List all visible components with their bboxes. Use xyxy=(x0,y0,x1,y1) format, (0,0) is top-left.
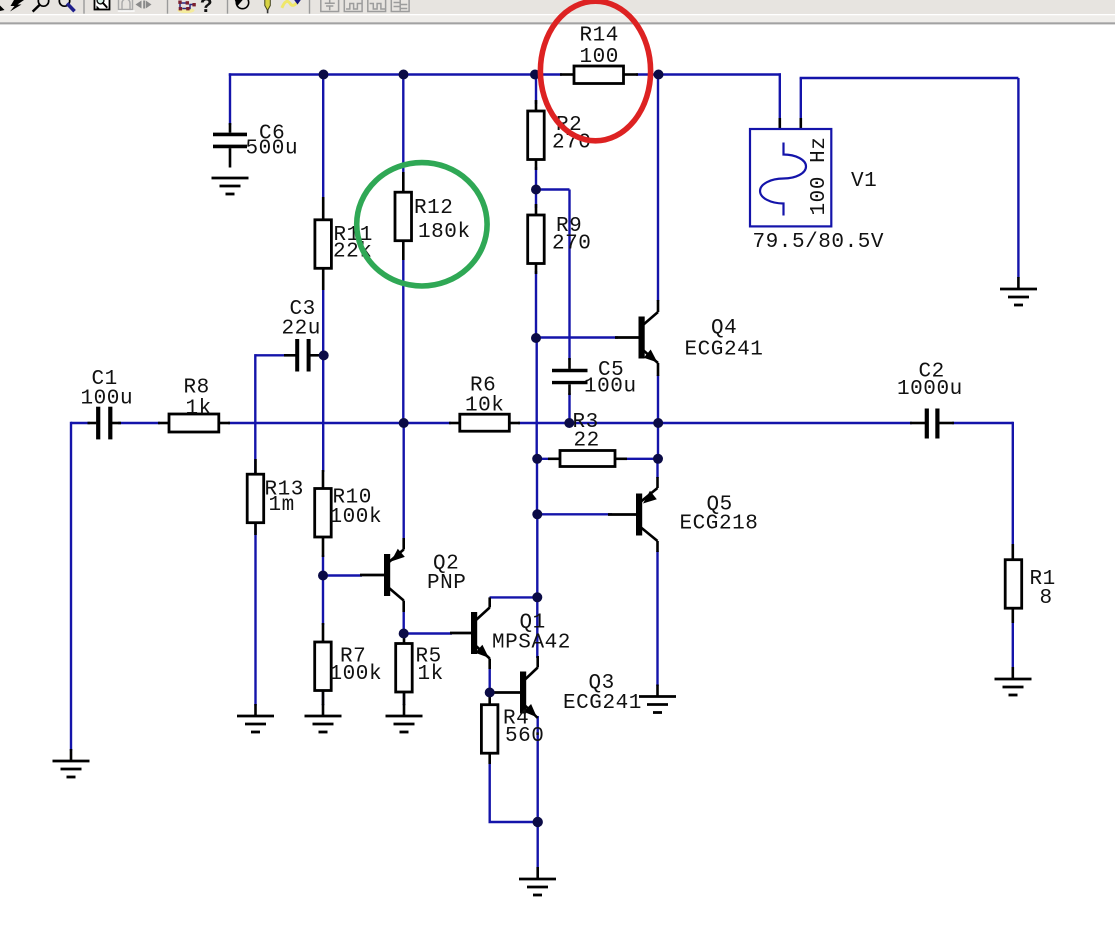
wire R5 to ground xyxy=(403,690,405,706)
wire R12 to main node xyxy=(402,258,404,423)
wire bottom node to ground xyxy=(537,822,539,868)
wire Q4 collector xyxy=(657,75,659,302)
voltage source V1 xyxy=(750,118,884,254)
wire Q1 collector node to Q3 collector xyxy=(536,597,538,658)
wire node to R9 xyxy=(535,190,537,209)
svg-text:ECG241: ECG241 xyxy=(563,692,642,715)
resistor R9 xyxy=(528,204,592,274)
wire R3 right node to Q5 emitter xyxy=(656,459,658,478)
wire Q5 base node to Q1 collector node xyxy=(536,514,538,597)
junction node Q1 collector xyxy=(532,592,542,602)
wire R8 to R12 node xyxy=(228,422,404,424)
wire top rail corner to V1 left pin xyxy=(779,73,781,120)
wire C5 branch horizontal xyxy=(536,188,570,190)
resistor R6 xyxy=(449,375,520,432)
wire C2 corner down to R1 xyxy=(1012,422,1014,546)
svg-text:100u: 100u xyxy=(584,376,637,399)
ground bottom center xyxy=(519,867,556,895)
svg-text:MPSA42: MPSA42 xyxy=(492,632,571,655)
junction node R2-R9-C5 xyxy=(531,185,541,195)
wire Q5 base xyxy=(537,513,612,515)
junction node R3 left xyxy=(532,454,542,464)
resistor R12 xyxy=(395,172,471,260)
junction node main-R12 xyxy=(399,418,409,428)
wire C5 to main wire xyxy=(568,393,570,423)
annotation red ellipse around R14 xyxy=(540,1,650,141)
wire Q4 emitter to main node xyxy=(657,375,659,423)
capacitor C3 xyxy=(282,298,322,372)
wire Q2 collector to R5 node xyxy=(403,610,405,634)
wire R7 to ground xyxy=(322,688,324,706)
svg-text:180k: 180k xyxy=(418,221,471,244)
transistor Q3 ECG241 NPN xyxy=(490,656,642,718)
wire V1 right pin up xyxy=(800,78,802,120)
svg-text:100k: 100k xyxy=(330,506,383,529)
svg-text:ECG218: ECG218 xyxy=(680,513,759,536)
ground below R13 xyxy=(237,704,274,732)
wire C6 column xyxy=(229,73,231,125)
resistor R11 xyxy=(315,197,373,290)
svg-text:100u: 100u xyxy=(81,388,134,411)
ground below Q5 xyxy=(639,685,676,713)
capacitor C6 xyxy=(213,123,298,168)
resistor R2 xyxy=(528,100,592,170)
wire C3 horizontal xyxy=(255,354,287,356)
junction node R3 right xyxy=(653,454,663,464)
wire Q5 collector to ground xyxy=(656,551,658,686)
resistor R8 xyxy=(158,377,230,433)
svg-text:Q4: Q4 xyxy=(711,317,737,340)
wire R11 to C3 node xyxy=(322,288,324,355)
wire main node to R3 right node xyxy=(657,423,659,459)
wire R11 column upper xyxy=(322,75,324,201)
junction node R9-Q4 base xyxy=(531,333,541,343)
wire Q4 base node down across main to R3 node xyxy=(536,338,538,459)
junction node Q5 base xyxy=(532,509,542,519)
wire R10 to Q2 base node xyxy=(322,555,324,576)
transistor Q4 ECG241 NPN xyxy=(615,300,763,376)
wire main node down to Q2 emitter xyxy=(403,423,405,540)
annotation green circle around R12 xyxy=(357,163,487,286)
wire R3 node to Q5 base node xyxy=(536,459,538,514)
junction node top rail R11 xyxy=(319,70,329,80)
wire left input down xyxy=(70,422,72,751)
wire V1 right column down to ground xyxy=(1017,78,1019,278)
svg-text:10k: 10k xyxy=(465,395,504,418)
wire R6 to C5 node xyxy=(518,422,570,424)
svg-text:1m: 1m xyxy=(269,494,295,517)
svg-text:R8: R8 xyxy=(184,377,210,400)
resistor R5 xyxy=(396,632,444,705)
wire C1 to R8 xyxy=(118,422,160,424)
svg-text:1000u: 1000u xyxy=(897,378,963,401)
wire Q1 emitter down xyxy=(489,668,491,693)
svg-text:560: 560 xyxy=(505,725,544,748)
transistor Q5 ECG218 PNP xyxy=(608,477,758,552)
wire R2 to node xyxy=(535,167,537,190)
wire C3 corner down to R13 xyxy=(254,354,256,476)
wire C5 node to Q4 node xyxy=(570,422,659,424)
resistor R1 xyxy=(1005,544,1056,623)
junction node main-C5 xyxy=(564,418,574,428)
svg-text:PNP: PNP xyxy=(427,572,466,595)
svg-text:R14: R14 xyxy=(580,25,619,48)
junction node Q2 collector R5 xyxy=(399,629,409,639)
svg-text:500u: 500u xyxy=(246,138,299,161)
svg-text:100 Hz: 100 Hz xyxy=(808,137,831,216)
wire R13 to ground xyxy=(254,520,256,706)
capacitor C2 xyxy=(897,361,963,439)
transistor Q2 PNP xyxy=(360,538,466,612)
ground below C6 xyxy=(212,178,249,194)
ground below R1 xyxy=(995,667,1032,695)
wire Q4 node to C2 xyxy=(658,422,912,424)
wire Q4 base xyxy=(536,336,618,338)
junction node top rail R12 xyxy=(399,70,409,80)
ground below R7 xyxy=(305,704,342,732)
junction node R10-Q2 base xyxy=(318,571,328,581)
wire R3 row xyxy=(537,458,658,460)
svg-text:R12: R12 xyxy=(414,197,453,220)
toolbar background xyxy=(0,0,1115,24)
resistor R10 xyxy=(315,470,382,557)
svg-text:?: ? xyxy=(200,0,213,19)
wire Q1 base xyxy=(404,632,452,634)
resistor R13 xyxy=(247,459,304,535)
wire Q2 base xyxy=(323,574,362,576)
toolbar icons xyxy=(0,0,409,19)
wire Q3 emitter down xyxy=(537,716,539,822)
wire R4 bottom elbow xyxy=(490,762,538,822)
transistor Q1 MPSA42 NPN xyxy=(450,597,571,669)
wire top rail left segment xyxy=(229,73,562,75)
svg-text:270: 270 xyxy=(552,233,591,256)
wire Q2 base node to R7 xyxy=(322,576,324,626)
svg-text:22: 22 xyxy=(574,430,600,453)
junction node top rail R2 xyxy=(530,70,540,80)
resistor R7 xyxy=(315,623,382,705)
ground left input xyxy=(53,749,90,777)
wire R9 to Q4 base node xyxy=(535,271,537,338)
ground below R5 xyxy=(386,704,423,732)
wire main horizontal left xyxy=(71,422,90,424)
junction node top rail Q4 xyxy=(654,70,664,80)
svg-text:79.5/80.5V: 79.5/80.5V xyxy=(753,231,885,254)
svg-text:1k: 1k xyxy=(186,398,212,421)
wire top rail right segment xyxy=(636,73,781,75)
wire C2 to corner xyxy=(952,422,1013,424)
svg-text:100k: 100k xyxy=(330,663,383,686)
junction node Q1 emitter R4 Q3 base xyxy=(485,688,495,698)
wire C5 branch vertical xyxy=(568,190,570,361)
junction node main-Q4 emitter xyxy=(653,418,663,428)
svg-text:ECG241: ECG241 xyxy=(685,339,764,362)
wire R12 node to R6 xyxy=(404,422,451,424)
wire C3 node down to R10 xyxy=(322,355,324,472)
resistor R3 xyxy=(548,411,627,467)
wire Q1 collector horizontal xyxy=(490,596,538,598)
svg-text:V1: V1 xyxy=(851,170,877,193)
wire R2 column top xyxy=(535,75,537,105)
resistor R14 xyxy=(560,25,638,84)
wire R1 to ground xyxy=(1012,622,1014,669)
ground V1 right xyxy=(1000,277,1037,305)
capacitor C1 xyxy=(81,368,134,439)
svg-text:100: 100 xyxy=(580,46,619,69)
svg-text:22u: 22u xyxy=(282,318,321,341)
resistor R4 xyxy=(481,693,544,765)
wire V1 right horizontal xyxy=(800,77,1019,79)
svg-text:1k: 1k xyxy=(418,663,444,686)
svg-text:8: 8 xyxy=(1040,587,1053,610)
wire R12 column upper xyxy=(402,75,404,175)
junction node C3 right xyxy=(319,350,329,360)
junction node bottom R4 Q3 emitter xyxy=(533,817,543,827)
capacitor C5 xyxy=(552,358,637,399)
